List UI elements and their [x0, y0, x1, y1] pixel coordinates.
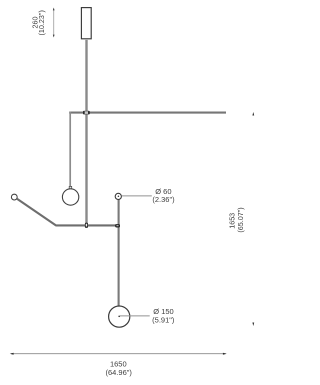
svg-text:(2.36"): (2.36") [152, 195, 175, 204]
connector sleeve S2 [85, 223, 88, 228]
O150 center dot [118, 315, 120, 317]
diagonal arm and bar 2 [17, 199, 118, 226]
svg-text:(65.07"): (65.07") [236, 207, 245, 232]
svg-text:1650: 1650 [110, 359, 127, 368]
svg-text:(5.91"): (5.91") [152, 315, 175, 324]
svg-text:(10.23"): (10.23") [37, 10, 46, 35]
connector sleeve S3 [115, 224, 120, 227]
O60 center dot [118, 195, 120, 197]
left drop rod [69, 112, 71, 187]
large sphere (O150) [109, 306, 130, 327]
O60 leader line [122, 195, 152, 197]
right dimension arrows 1653 [252, 112, 254, 116]
right drop rod [118, 199, 120, 306]
O150 leader line [120, 315, 150, 317]
bottom dimension line 1650 [11, 353, 226, 355]
left end small circle [11, 194, 17, 200]
svg-text:(64.96"): (64.96") [105, 368, 132, 377]
connector sleeve S1 [83, 111, 89, 114]
small sphere (O60) [115, 193, 121, 199]
left dimension line 260 [53, 9, 55, 37]
sphere nub [69, 186, 72, 189]
medium sphere [62, 189, 78, 205]
horizontal bar 1 [69, 112, 226, 114]
ceiling canopy [81, 8, 91, 39]
main vertical rod [85, 40, 87, 226]
